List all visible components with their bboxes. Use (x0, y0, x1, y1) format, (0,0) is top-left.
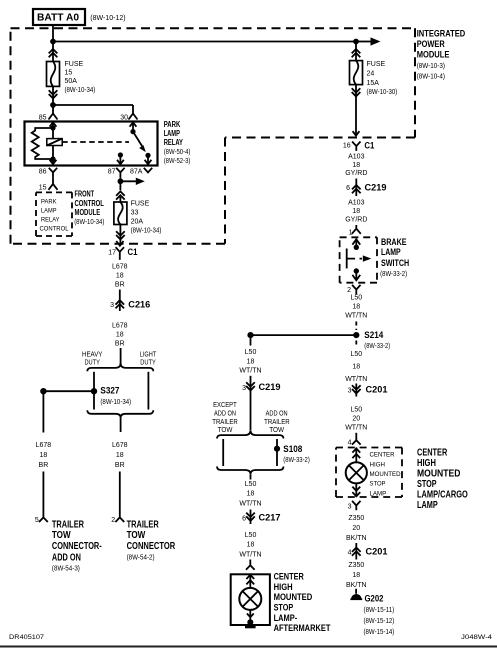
svg-text:3: 3 (242, 385, 246, 392)
svg-text:CENTER: CENTER (417, 448, 448, 459)
svg-text:RELAY: RELAY (164, 138, 184, 147)
pin 4 label C201 (348, 549, 352, 556)
relay switch arm (133, 132, 146, 153)
connector C1 label (128, 247, 139, 258)
svg-text:(8W-10-34): (8W-10-34) (74, 219, 104, 226)
wire BATT A0 to bus (52, 25, 54, 42)
svg-text:5: 5 (35, 517, 39, 524)
wire label L678 18 BR middle (112, 322, 128, 347)
svg-text:L50: L50 (350, 406, 362, 413)
svg-text:C217: C217 (259, 513, 281, 524)
wire junction to fuse 24 (355, 42, 357, 61)
wire fuse 15 to relay node (52, 86, 54, 105)
svg-text:6: 6 (346, 185, 350, 192)
svg-text:AFTERMARKET: AFTERMARKET (274, 623, 331, 634)
pin 30 chevron (129, 114, 138, 120)
connector C219 pin3 label (259, 382, 281, 393)
trailer tow pin chevron (115, 517, 124, 522)
wire into aftermarket lamp (249, 560, 251, 566)
svg-text:16: 16 (343, 142, 351, 149)
svg-text:3: 3 (348, 388, 352, 395)
svg-text:TRAILER: TRAILER (52, 519, 85, 530)
svg-text:50A: 50A (65, 78, 78, 85)
brake switch upper contact (354, 245, 359, 250)
svg-text:CONNECTOR: CONNECTOR (127, 541, 176, 552)
svg-text:A103: A103 (348, 153, 364, 160)
brake lamp switch label (380, 237, 409, 278)
svg-text:(8W-10-34): (8W-10-34) (65, 87, 96, 94)
BATT A0 reference (90, 15, 125, 22)
fuse 15 (47, 62, 60, 87)
svg-text:C201: C201 (366, 547, 389, 558)
wire 87 to fuse 33 (119, 177, 121, 190)
svg-text:C219: C219 (259, 382, 281, 393)
connector C201 pin4 label (366, 547, 389, 558)
svg-text:(8W-33-2): (8W-33-2) (380, 271, 407, 278)
pin 87a chevron (144, 168, 152, 173)
svg-text:MOUNTED: MOUNTED (417, 469, 460, 480)
svg-text:A103: A103 (348, 199, 364, 206)
chmsl inner label (370, 452, 401, 498)
wire label L678 18 BR add-on (36, 442, 52, 469)
splice S108 (274, 446, 280, 452)
wire label L50 18 WT/TN aftermarket (239, 532, 261, 558)
svg-text:SWITCH: SWITCH (381, 258, 409, 269)
svg-text:ADD ON: ADD ON (266, 410, 288, 417)
wire below tow merge brace (250, 474, 252, 479)
brake switch entry arrow (352, 239, 360, 248)
ground G202 (350, 594, 362, 599)
svg-text:15: 15 (65, 70, 73, 77)
svg-text:(8W-10-3): (8W-10-3) (417, 63, 445, 70)
wire middle column from junction (250, 335, 252, 345)
pin 6 label C217 (242, 516, 246, 523)
svg-text:18: 18 (247, 491, 255, 498)
double chevron above fuse 24 (352, 49, 361, 57)
pin 30 label (120, 114, 128, 121)
svg-text:18: 18 (116, 331, 124, 338)
svg-text:15: 15 (39, 185, 47, 192)
svg-text:(8W-15-12): (8W-15-12) (364, 618, 395, 625)
svg-text:18: 18 (116, 452, 124, 459)
svg-text:85: 85 (39, 114, 47, 121)
svg-text:LAMP: LAMP (41, 208, 57, 215)
svg-text:FUSE: FUSE (131, 201, 150, 208)
svg-text:STOP: STOP (370, 481, 386, 488)
junction add-on branch (40, 388, 46, 394)
svg-text:20: 20 (352, 415, 360, 422)
brake switch blade (346, 249, 348, 269)
svg-text:POWER: POWER (417, 39, 445, 50)
wire to trailer tow add-on connector (42, 472, 44, 518)
svg-text:20A: 20A (131, 219, 144, 226)
park lamp relay label (164, 120, 191, 165)
svg-text:BR: BR (115, 340, 125, 347)
svg-text:BR: BR (115, 462, 125, 469)
light duty branch wire (147, 372, 149, 410)
splice S327 (91, 388, 97, 394)
svg-text:18: 18 (352, 208, 360, 215)
relay mechanical link dashed (62, 141, 129, 143)
aftermarket lamp bulb (239, 588, 261, 610)
pin 3 label C219 (242, 385, 246, 392)
ground G202 references (364, 607, 395, 636)
svg-text:S327: S327 (100, 386, 119, 397)
split brace heavy light duty (87, 363, 153, 371)
svg-text:(8W-33-2): (8W-33-2) (364, 343, 390, 350)
svg-text:87A: 87A (130, 168, 143, 175)
svg-text:2: 2 (111, 517, 115, 524)
svg-text:3: 3 (348, 503, 352, 510)
svg-text:CONTROL: CONTROL (40, 226, 69, 233)
svg-text:30: 30 (120, 114, 128, 121)
wire to ground G202 (355, 589, 357, 594)
brake switch lower contact (354, 268, 359, 273)
svg-text:86: 86 (39, 168, 47, 175)
trailer tow add-on pin chevron (39, 517, 48, 522)
svg-text:(8W-10-12): (8W-10-12) (90, 15, 125, 22)
except branch wire (222, 439, 224, 466)
relay pin 85 entry arrow (50, 122, 57, 129)
svg-text:3: 3 (110, 302, 114, 309)
wire S327 to add-on branch (43, 390, 94, 392)
footer rule (0, 646, 497, 648)
junction at 87 branch (118, 178, 124, 184)
wire label A103 18 GY/RD lower (345, 199, 367, 223)
heavy duty branch wire (93, 372, 95, 410)
pin 6 label (346, 185, 350, 192)
svg-text:WT/TN: WT/TN (345, 376, 367, 383)
aftermarket lamp box (231, 574, 270, 625)
pin 4 label chmsl (348, 439, 352, 446)
svg-text:TRAILER: TRAILER (127, 519, 160, 530)
wire dashes above S214 (355, 322, 357, 331)
relay common contact junction (130, 129, 135, 134)
wire below merge brace (120, 418, 122, 432)
wire into brake lamp switch (355, 225, 357, 228)
svg-text:HIGH: HIGH (417, 458, 436, 469)
relay 87 exit arrow (117, 155, 124, 164)
svg-text:BK/TN: BK/TN (346, 535, 367, 542)
connector C1 pin16 label (364, 140, 375, 151)
svg-text:C201: C201 (366, 385, 389, 396)
svg-text:L50: L50 (245, 349, 257, 356)
svg-text:MOUNTED: MOUNTED (370, 471, 401, 478)
except add on trailer tow label (212, 402, 238, 434)
wire into C201 pin 4 (355, 543, 357, 560)
svg-text:(8W-50-4): (8W-50-4) (164, 149, 191, 156)
wire label L50 18 WT/TN below S214 (345, 351, 367, 383)
brake lamp switch dashed box (340, 237, 377, 282)
svg-text:(8W-10-34): (8W-10-34) (100, 399, 131, 406)
svg-text:FUSE: FUSE (65, 61, 84, 68)
wire into duty split brace (120, 348, 122, 364)
svg-text:C216: C216 (128, 300, 150, 311)
wire label L678 18 BR trailer (112, 442, 128, 469)
connector C217 label (259, 513, 281, 524)
junction above relay (50, 102, 56, 108)
merge brace heavy light duty (87, 410, 153, 417)
svg-text:(8W-10-30): (8W-10-30) (367, 89, 398, 96)
svg-text:L678: L678 (112, 263, 128, 270)
wire label Z350 18 BK/TN (346, 562, 367, 589)
svg-text:2: 2 (347, 287, 351, 294)
connector C216 label (128, 300, 150, 311)
fuse 33 value label (131, 201, 162, 235)
svg-text:DUTY: DUTY (140, 360, 156, 367)
connector C219 pin 3 (246, 382, 255, 390)
svg-text:WT/TN: WT/TN (239, 551, 261, 558)
pin 2 label brake switch (347, 287, 351, 294)
relay coil top junction (50, 125, 55, 130)
light duty label (140, 351, 157, 366)
chmsl pin 3 connector (352, 501, 360, 510)
svg-text:L50: L50 (350, 351, 362, 358)
svg-text:Z350: Z350 (348, 562, 364, 569)
wire into C216 (119, 290, 121, 312)
relay resistor (32, 128, 53, 159)
svg-text:STOP: STOP (417, 479, 437, 490)
svg-text:TOW: TOW (127, 530, 146, 541)
brake switch pin 2 connector (352, 285, 360, 294)
svg-text:(8W-15-11): (8W-15-11) (364, 607, 395, 614)
chmsl cargo lamp bulb (346, 462, 367, 483)
svg-text:C1: C1 (128, 247, 139, 258)
center high mounted stop lamp cargo dashed box (336, 448, 402, 498)
svg-text:(8W-52-3): (8W-52-3) (164, 158, 191, 165)
park lamp relay control dashed box (36, 192, 72, 236)
pin 87 connector (116, 168, 124, 177)
double chevron below fuse 33 (116, 231, 125, 239)
svg-text:PARK: PARK (164, 120, 181, 129)
pin 15 chevron (49, 184, 58, 190)
svg-text:HEAVY: HEAVY (82, 351, 103, 358)
svg-text:GY/RD: GY/RD (345, 217, 367, 224)
add on branch wire (276, 439, 278, 466)
wire to relay pins 85 and 30 (53, 105, 133, 113)
footer sheet number right (461, 634, 492, 641)
svg-text:RELAY: RELAY (41, 217, 60, 224)
connector C217 (246, 513, 255, 521)
svg-text:BK/TN: BK/TN (346, 582, 367, 589)
svg-text:(8W-54-2): (8W-54-2) (127, 555, 155, 562)
split brace trailer tow (217, 430, 284, 438)
svg-text:20: 20 (352, 525, 360, 532)
fuse 33 (114, 197, 127, 225)
aftermarket lamp case ground (245, 619, 256, 628)
wire to trailer tow connector (119, 472, 121, 518)
svg-text:4: 4 (348, 549, 352, 556)
svg-text:(8W-54-3): (8W-54-3) (52, 565, 80, 572)
ground G202 label (365, 593, 384, 604)
svg-text:PARK: PARK (41, 199, 57, 206)
wire dashes below S214 (355, 341, 357, 348)
relay pin 30 entry arrow (130, 122, 137, 132)
svg-text:17: 17 (108, 250, 116, 257)
bus continuation arrow (356, 37, 381, 45)
relay coil (47, 128, 62, 159)
svg-text:Z350: Z350 (348, 515, 364, 522)
add on trailer tow label (264, 410, 290, 434)
pin 1 label (349, 230, 353, 237)
wire 86 to front control module (52, 177, 54, 184)
footer sheet number left (9, 634, 44, 641)
svg-text:TOW: TOW (52, 530, 71, 541)
wire into C219 pin 3 (250, 376, 252, 398)
svg-text:24: 24 (367, 71, 375, 78)
integrated power module dashed outline (11, 28, 416, 244)
pin 16 label (343, 142, 351, 149)
svg-text:CENTER: CENTER (370, 452, 395, 459)
pin 85 chevron (49, 114, 58, 120)
svg-text:L50: L50 (245, 532, 257, 539)
svg-text:CONTROL: CONTROL (75, 199, 104, 208)
splice S214 (353, 332, 359, 338)
svg-text:C219: C219 (365, 183, 387, 194)
wire junction to fuse 15 (52, 42, 54, 62)
connector C201 pin 3 (352, 385, 361, 393)
aftermarket lamp exit chevron (247, 610, 254, 622)
connector C201 pin 4 (352, 548, 361, 556)
svg-text:DUTY: DUTY (84, 360, 100, 367)
pin 4 chevron (352, 440, 361, 444)
fuse 24 (350, 61, 363, 85)
connector C1 pin 16 (352, 142, 360, 151)
pin 85 label (39, 114, 47, 121)
svg-text:TOW: TOW (218, 427, 233, 434)
svg-text:L50: L50 (245, 481, 257, 488)
svg-text:33: 33 (131, 210, 139, 217)
trailer tow connector label (127, 519, 176, 561)
wire label A103 18 GY/RD upper (345, 153, 367, 177)
relay contact 87 junction (118, 152, 123, 157)
svg-text:DR405107: DR405107 (9, 634, 44, 641)
svg-text:18: 18 (352, 162, 360, 169)
bus wire across top (53, 41, 356, 43)
pin 3 label C201 (348, 388, 352, 395)
connector C216 (116, 300, 125, 308)
wire label Z350 20 BK/TN (346, 515, 367, 542)
wire into C219 pin 6 (355, 179, 357, 197)
svg-text:18: 18 (352, 303, 360, 310)
pin 2 label (111, 517, 115, 524)
pin 86 label (39, 168, 47, 175)
svg-text:G202: G202 (365, 593, 384, 604)
svg-text:MODULE: MODULE (417, 49, 450, 60)
pin 17 label (108, 250, 116, 257)
brake switch exit arrow (352, 271, 360, 280)
splice S327 label (100, 386, 131, 406)
svg-text:LAMP: LAMP (417, 500, 438, 511)
svg-text:18: 18 (247, 358, 255, 365)
double chevron above fuse 33 (116, 191, 125, 199)
junction fuse 24 feed (353, 39, 359, 45)
svg-text:18: 18 (116, 272, 124, 279)
svg-text:TRAILER: TRAILER (264, 419, 290, 426)
svg-text:LAMP: LAMP (164, 129, 181, 138)
pin 1 chevron (352, 229, 361, 234)
svg-text:87: 87 (108, 168, 116, 175)
wire into C217 (250, 510, 252, 525)
svg-text:WT/TN: WT/TN (239, 500, 261, 507)
relay coil bottom junction (50, 156, 55, 161)
wire label L678 18 BR upper (112, 263, 128, 288)
svg-text:CONNECTOR-: CONNECTOR- (52, 541, 102, 552)
wire into chmsl cargo lamp (355, 433, 357, 440)
svg-text:FRONT: FRONT (75, 190, 95, 199)
svg-text:WT/TN: WT/TN (239, 367, 261, 374)
svg-text:TRAILER: TRAILER (212, 419, 238, 426)
wire into C201 pin 3 (355, 384, 357, 397)
wire label L50 18 WT/TN below switch (345, 294, 367, 319)
splice S108 label (283, 444, 310, 464)
svg-text:L678: L678 (112, 442, 128, 449)
relay contact 87a junction (145, 153, 150, 158)
fuse 15 value label (65, 61, 96, 94)
svg-text:4: 4 (348, 439, 352, 446)
svg-text:TOW: TOW (269, 427, 284, 434)
svg-text:6: 6 (242, 516, 246, 523)
svg-text:J048W-4: J048W-4 (461, 634, 492, 641)
connector C219 pin 6 (352, 185, 361, 193)
wire label L50 18 WT/TN middle upper (239, 349, 261, 374)
pin 87a label (130, 168, 143, 175)
wire stub below C1 pin 17 (119, 257, 121, 260)
aftermarket lamp label (274, 572, 331, 634)
svg-text:LAMP: LAMP (381, 247, 401, 258)
park lamp relay box (25, 122, 158, 166)
junction fuse 15 feed (50, 39, 56, 45)
svg-text:(8W-10-34): (8W-10-34) (131, 228, 162, 235)
svg-text:(8W-33-2): (8W-33-2) (283, 457, 310, 464)
wire fuse 24 to C1 pin 16 (353, 85, 360, 136)
splice S214 label (364, 330, 390, 350)
svg-text:WT/TN: WT/TN (345, 424, 367, 431)
svg-text:C1: C1 (364, 140, 375, 151)
wire label L50 18 WT/TN middle lower (239, 481, 261, 507)
merge brace trailer tow (217, 467, 284, 475)
wire label L50 20 WT/TN (345, 406, 367, 431)
double chevron below fuse 24 (352, 88, 361, 96)
relay 87a exit arrow (145, 155, 152, 164)
battery feed BATT A0 (33, 9, 85, 25)
aftermarket lamp entry chevrons (246, 574, 254, 588)
front control module label (74, 190, 104, 226)
svg-text:LIGHT: LIGHT (140, 351, 157, 358)
pin 3 label C216 (110, 302, 114, 309)
svg-text:MODULE: MODULE (75, 208, 101, 217)
svg-text:15A: 15A (367, 80, 380, 87)
svg-text:BATT A0: BATT A0 (37, 13, 79, 24)
svg-text:LAMP: LAMP (370, 490, 387, 497)
relay pin 86 exit arrow (50, 159, 57, 164)
heavy duty label (82, 351, 103, 366)
svg-text:FUSE: FUSE (367, 61, 386, 68)
svg-text:18: 18 (247, 542, 255, 549)
svg-text:L678: L678 (36, 442, 52, 449)
pin 3 label chmsl (348, 503, 352, 510)
chmsl cargo label (417, 448, 468, 512)
svg-text:ADD ON: ADD ON (52, 552, 81, 563)
chmsl exit chevrons (352, 483, 360, 497)
svg-text:HIGH: HIGH (370, 461, 386, 468)
svg-text:(8W-15-14): (8W-15-14) (364, 629, 395, 636)
pin 87 label (108, 168, 116, 175)
wire add-on branch down (42, 391, 44, 432)
svg-text:INTEGRATED: INTEGRATED (417, 28, 466, 39)
double chevron below fuse 15 (49, 90, 58, 98)
svg-text:LAMP/CARGO: LAMP/CARGO (417, 490, 468, 501)
